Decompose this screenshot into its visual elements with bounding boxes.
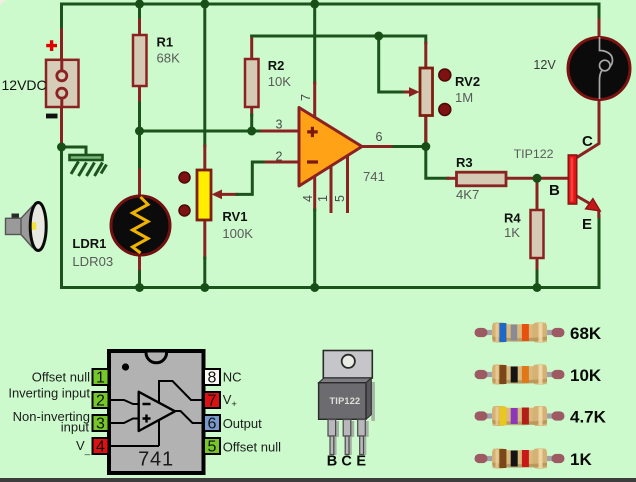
svg-text:7: 7 bbox=[299, 94, 313, 101]
svg-text:B: B bbox=[327, 454, 337, 470]
svg-text:68K: 68K bbox=[570, 324, 602, 343]
svg-text:4K7: 4K7 bbox=[456, 187, 479, 202]
svg-text:4.7K: 4.7K bbox=[570, 408, 607, 427]
svg-text:1M: 1M bbox=[455, 90, 473, 105]
svg-text:4: 4 bbox=[96, 439, 105, 456]
svg-text:5: 5 bbox=[208, 439, 217, 456]
svg-text:12V: 12V bbox=[533, 58, 556, 72]
svg-text:6: 6 bbox=[208, 416, 217, 433]
svg-text:RV2: RV2 bbox=[455, 74, 480, 89]
svg-text:Offset null: Offset null bbox=[32, 369, 90, 384]
svg-text:10K: 10K bbox=[268, 74, 292, 89]
svg-text:R4: R4 bbox=[504, 211, 521, 226]
svg-text:R1: R1 bbox=[157, 35, 174, 50]
svg-text:68K: 68K bbox=[157, 51, 181, 66]
svg-text:B: B bbox=[549, 182, 560, 199]
svg-text:8: 8 bbox=[208, 370, 217, 387]
svg-text:100K: 100K bbox=[222, 226, 253, 241]
svg-text:TIP122: TIP122 bbox=[514, 147, 554, 161]
svg-text:C: C bbox=[341, 454, 352, 470]
svg-text:C: C bbox=[582, 133, 593, 150]
svg-text:6: 6 bbox=[376, 130, 383, 144]
svg-text:1: 1 bbox=[96, 370, 105, 387]
svg-text:TIP122: TIP122 bbox=[330, 396, 361, 406]
svg-text:input: input bbox=[61, 420, 90, 435]
svg-text:1K: 1K bbox=[504, 225, 520, 240]
svg-text:Inverting input: Inverting input bbox=[8, 386, 90, 401]
svg-text:3: 3 bbox=[96, 416, 105, 433]
svg-text:R3: R3 bbox=[456, 155, 473, 170]
svg-text:E: E bbox=[356, 454, 366, 470]
svg-text:741: 741 bbox=[138, 449, 174, 471]
svg-text:LDR03: LDR03 bbox=[72, 254, 113, 269]
svg-text:12VDC: 12VDC bbox=[2, 77, 47, 93]
svg-text:LDR1: LDR1 bbox=[72, 236, 106, 251]
svg-text:E: E bbox=[582, 216, 592, 233]
svg-text:R2: R2 bbox=[268, 58, 285, 73]
svg-text:2: 2 bbox=[276, 150, 283, 164]
svg-text:10K: 10K bbox=[570, 366, 602, 385]
svg-text:3: 3 bbox=[276, 118, 283, 132]
svg-text:1K: 1K bbox=[570, 450, 592, 469]
svg-text:4: 4 bbox=[301, 195, 315, 202]
svg-text:2: 2 bbox=[96, 393, 105, 410]
svg-text:5: 5 bbox=[333, 195, 347, 202]
svg-text:NC: NC bbox=[223, 369, 242, 384]
svg-text:7: 7 bbox=[208, 393, 217, 410]
svg-text:RV1: RV1 bbox=[222, 209, 247, 224]
svg-text:Offset null: Offset null bbox=[223, 440, 281, 455]
svg-text:1: 1 bbox=[316, 195, 330, 202]
svg-text:Output: Output bbox=[223, 416, 262, 431]
svg-text:741: 741 bbox=[363, 169, 385, 184]
